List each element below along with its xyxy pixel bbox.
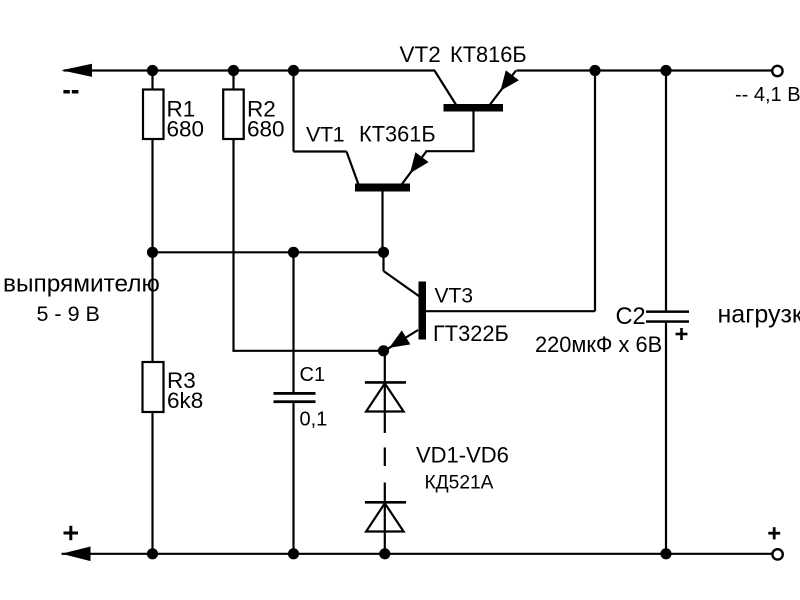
node diode chain / bottom rail junction [379,548,390,559]
wire bottom rail [62,553,773,555]
label diode type КД521А [425,473,494,494]
capacitor C2 bottom plate [646,320,689,323]
svg-text:КД521А: КД521А [425,473,494,494]
label R1 [167,97,196,122]
wire VT1 base lead [381,192,383,253]
svg-text:VT1: VT1 [306,123,344,147]
resistor R3 [143,362,164,412]
wire VT2 base lead [426,112,475,152]
svg-text:VT2: VT2 [400,42,441,67]
label VT2 type КТ816Б [450,42,527,67]
transistor VT1 base bar [355,184,410,192]
node C2 / bottom rail junction [660,548,671,559]
capacitor C2 top plate [646,310,689,313]
wire VD2 top lead [384,483,386,504]
wire VT1 collector branch vertical [292,71,294,152]
wire C1 top lead [292,252,294,392]
label input minus polarity [63,90,78,94]
wire VT2 collector diagonal [435,71,457,106]
node output rail / C2 junction [660,65,671,76]
label VT3 [435,285,474,308]
svg-text:-- 4,1 В: -- 4,1 В [735,84,800,106]
wire VT3 collector lead [384,252,420,296]
arrow positive input terminal [62,547,91,562]
label VT1 type КТ361Б [359,122,436,147]
label C2 [616,304,646,330]
diode VD1 cathode bar [365,381,406,384]
node R1 / divider wire junction [147,247,158,258]
label input plus polarity [64,526,79,540]
diode VD2 triangle [366,503,404,531]
label C2 value 220мкФ х 6В [535,332,662,357]
label R3 [167,368,196,393]
svg-text:6k8: 6k8 [167,388,203,413]
node C1 / bottom rail junction [288,548,299,559]
label VT1 [306,123,344,147]
label R3 value 6k8 [167,388,203,413]
wire VT3 base branch vertical [594,71,596,312]
resistor R1 [143,90,164,140]
svg-text:680: 680 [247,117,285,142]
wire C1 bottom lead [292,403,294,554]
label VT3 type ГТ322Б [433,321,509,346]
label C1 [300,364,326,386]
diode VD1 triangle [366,383,404,411]
wire base divider rail [153,251,384,253]
svg-text:нагрузка: нагрузка [718,301,800,329]
capacitor C1 bottom plate [274,400,316,403]
terminal output negative [772,66,782,76]
node output rail / VT3 base branch junction [589,65,600,76]
wire R2 bottom lead [234,139,384,352]
label VT2 [400,42,441,67]
wire C2 top lead [665,71,667,311]
wire R3 bottom lead [151,412,153,554]
node VT1 collector branch / top rail junction [288,65,299,76]
wire VT1 collector branch horizontal [294,150,347,152]
svg-text:ГТ322Б: ГТ322Б [433,321,509,346]
label VD1-VD6 [416,443,509,468]
label output plus polarity [768,527,780,539]
wire VT1 collector diagonal [347,152,359,185]
svg-text:C2: C2 [616,304,646,330]
svg-text:КТ361Б: КТ361Б [359,122,436,147]
arrow negative input terminal [62,64,93,77]
node C1 / divider wire junction [288,247,299,258]
label R1 value 680 [167,117,205,142]
svg-text:5 - 9 В: 5 - 9 В [37,302,100,326]
label load нагрузка [718,301,800,329]
wire VT3 base lead [426,310,595,312]
transistor VT2 emitter with arrow [490,70,519,104]
label source voltage 5 - 9 В [37,302,100,326]
label source выпрямителю [3,271,160,298]
wire R1 bottom lead [151,139,153,252]
wire top rail left segment [64,69,436,71]
node R2 / top rail junction [228,65,239,76]
label C2 plus polarity [676,328,688,340]
wire top rail right segment [517,69,773,71]
wire C2 bottom lead [665,323,667,554]
svg-text:C1: C1 [300,364,326,386]
svg-text:VT3: VT3 [435,285,474,308]
svg-text:0,1: 0,1 [300,409,328,431]
transistor VT3 emitter with arrow [385,330,419,351]
node R3 / bottom rail junction [147,548,158,559]
wire R3 top lead [151,252,153,362]
transistor VT2 base bar [444,104,504,112]
diode VD2 cathode bar [365,501,406,504]
terminal output positive [772,549,782,559]
svg-text:VD1-VD6: VD1-VD6 [416,443,509,468]
wire diode chain continuation dash [384,448,386,467]
label R2 value 680 [247,117,285,142]
wire VD1 bottom lead [384,383,386,433]
resistor R2 [223,90,244,140]
svg-text:КТ816Б: КТ816Б [450,42,527,67]
label C1 value 0,1 [300,409,328,431]
wire R2 top lead [232,71,234,90]
wire R1 top lead [151,71,153,90]
transistor VT1 emitter with arrow [402,151,429,184]
wire VD2 bottom lead [384,503,386,554]
node VT1 base / VT3 collector junction [378,247,389,258]
node R1 / top rail junction [147,65,158,76]
transistor VT3 base bar [419,282,427,340]
node VT3 emitter / R2 / VD1 junction [378,345,389,356]
svg-text:680: 680 [167,117,205,142]
svg-text:220мкФ х 6В: 220мкФ х 6В [535,332,662,357]
label R2 [247,97,276,122]
label output voltage -- 4,1 В [735,84,800,106]
svg-text:выпрямителю: выпрямителю [3,271,160,298]
wire VD1 top lead [384,351,386,383]
capacitor C1 top plate [274,392,316,395]
